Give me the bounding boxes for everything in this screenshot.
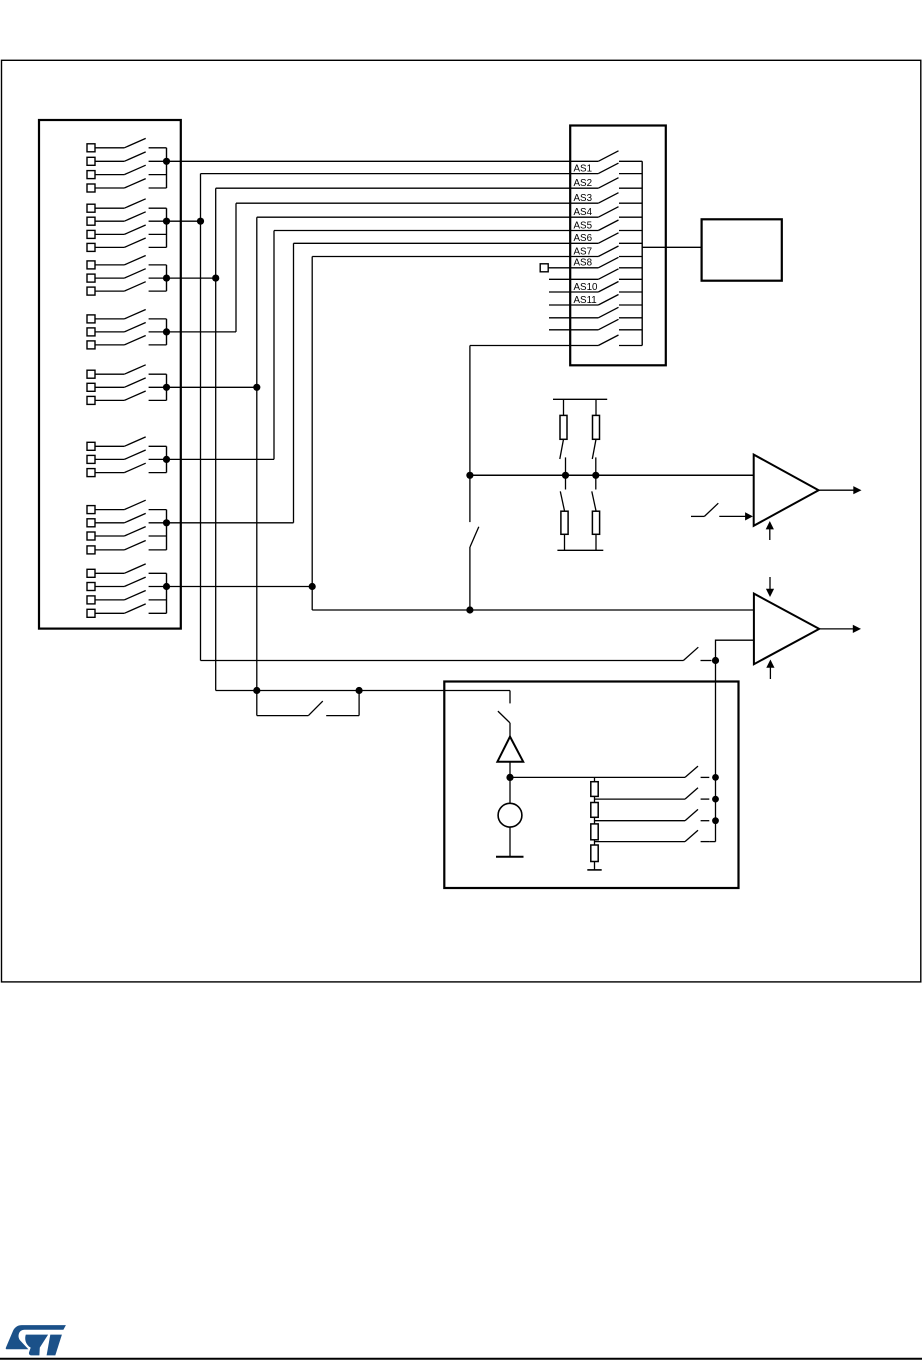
input switch matrix block — [39, 120, 181, 629]
switch G7.1 — [87, 500, 167, 513]
wire AS1 vertical — [200, 174, 202, 661]
wire G8 out — [167, 586, 313, 588]
node G1 out — [163, 158, 170, 165]
switch AS row1 — [598, 151, 642, 162]
wire stub — [549, 278, 598, 280]
wire AS row8 horizontal — [312, 256, 598, 258]
resistor RL4 — [591, 845, 598, 862]
node G7 out — [163, 519, 170, 526]
node D — [466, 606, 473, 613]
switch G3.3 — [87, 282, 167, 295]
switch G8.2 — [87, 577, 167, 590]
wire main line to op-amp U1 — [470, 474, 754, 476]
switch bypass (below line) — [257, 691, 359, 716]
node C — [592, 472, 599, 479]
wire ladder link — [594, 796, 596, 802]
switch ref tap 1 — [685, 766, 709, 777]
switch G8.1 — [87, 564, 167, 577]
switch G7.4 — [87, 541, 167, 554]
node A — [466, 472, 473, 479]
wire diode to node H — [509, 762, 511, 778]
switch AS row14 — [598, 319, 642, 330]
switch G8.3 — [87, 591, 167, 604]
wire G3 out — [167, 277, 216, 279]
resistor R bottom — [592, 511, 599, 550]
switch G3.1 — [87, 256, 167, 269]
wire AS row2 horizontal — [201, 173, 599, 175]
wire right vertical (node E down) — [715, 661, 717, 842]
group G4 bracket — [166, 319, 168, 345]
wire stub — [549, 317, 598, 319]
wire G4 out — [167, 331, 237, 333]
terminal AS8 input — [540, 264, 598, 272]
switch G1.4 — [87, 179, 167, 192]
wire tap4 contact — [709, 841, 715, 843]
switch G1.1 — [87, 138, 167, 151]
node B — [562, 472, 569, 479]
AS selector block — [570, 126, 666, 366]
node G5 out — [163, 384, 170, 391]
arrow U3 top control — [766, 577, 774, 597]
wire divider feed vertical (AS row15 to node A) — [469, 346, 471, 476]
switch AS row2 — [598, 163, 642, 174]
node G — [356, 687, 363, 694]
footer rule — [0, 1358, 922, 1360]
node G2 out — [163, 218, 170, 225]
wire U3 output — [819, 625, 861, 633]
wire op-amp U3 input (from AS7/G8) — [312, 609, 754, 611]
switch G4.3 — [87, 336, 167, 349]
switch G4.2 — [87, 323, 167, 336]
switch G6.3 — [87, 463, 167, 476]
wire AS row6 horizontal — [274, 230, 598, 232]
svg-text:AS6: AS6 — [574, 233, 593, 244]
switch (bottom branch) — [592, 475, 596, 511]
bottom rail — [557, 549, 603, 551]
node G3 out — [163, 275, 170, 282]
arrow U3 bias — [766, 660, 774, 680]
switch G1.3 — [87, 165, 167, 178]
switch G2.4 — [87, 238, 167, 251]
switch G3.2 — [87, 269, 167, 282]
resistor RL1 — [591, 782, 598, 797]
group G3 bracket — [166, 265, 168, 291]
node G8 out — [163, 583, 170, 590]
figure frame — [2, 60, 921, 982]
resistor RL2 — [591, 803, 598, 818]
ST logo — [6, 1325, 66, 1355]
switch G5.1 — [87, 365, 167, 378]
switch G7.2 — [87, 513, 167, 526]
switch AS row10 — [598, 269, 642, 280]
wire AS3 vertical — [235, 203, 237, 332]
junction node G3/AS2 — [212, 275, 219, 282]
top rail — [553, 398, 607, 400]
ground (ladder) — [587, 869, 601, 871]
group G2 bracket — [166, 208, 168, 247]
group G5 bracket — [166, 374, 168, 400]
current source I1 — [498, 777, 522, 856]
junction node G8/AS7 — [309, 583, 316, 590]
node H — [506, 774, 513, 781]
switch (top branch) — [560, 439, 566, 475]
svg-text:AS11: AS11 — [574, 295, 597, 306]
switch AS row13 — [598, 307, 642, 318]
wire node H to ladder — [510, 776, 685, 778]
diode D1 — [497, 737, 523, 762]
node tap1 — [712, 774, 719, 781]
ground (I1) — [496, 856, 524, 858]
switch U3 control — [683, 647, 711, 660]
wire tap 3 — [595, 820, 686, 822]
switch AS row3 — [598, 178, 642, 189]
wire AS row3 horizontal — [216, 187, 599, 189]
wire AS row4 horizontal — [236, 202, 598, 204]
wire AS common out — [642, 246, 701, 248]
arrow U1 bias — [766, 521, 774, 540]
svg-text:AS7: AS7 — [574, 246, 593, 257]
switch G2.1 — [87, 199, 167, 212]
switch AS row6 — [598, 220, 642, 231]
switch G4.1 — [87, 310, 167, 323]
op-amp U3 — [754, 594, 819, 665]
switch ref tap 3 — [685, 809, 709, 820]
switch (bottom branch) — [560, 475, 565, 511]
switch AS row11 — [598, 282, 642, 293]
switch G8.4 — [87, 604, 167, 617]
switch G5.3 — [87, 391, 167, 404]
switch G1.2 — [87, 152, 167, 165]
svg-text:AS3: AS3 — [574, 193, 593, 204]
svg-text:AS8: AS8 — [574, 258, 593, 269]
svg-text:AS4: AS4 — [574, 207, 593, 218]
wire AS5 vertical — [273, 231, 275, 460]
svg-text:AS1: AS1 — [574, 163, 593, 174]
switch AS row5 — [598, 207, 642, 218]
switch AS row15 — [598, 335, 642, 346]
node F — [253, 687, 260, 694]
wire AS4 vertical — [256, 217, 258, 690]
svg-text:AS2: AS2 — [574, 178, 593, 189]
wire AS row5 horizontal — [257, 216, 599, 218]
AS common bracket — [641, 161, 643, 345]
resistor RL3 — [591, 824, 598, 840]
switch G2.2 — [87, 212, 167, 225]
node G4 out — [163, 328, 170, 335]
switch ref tap 4 — [685, 830, 709, 841]
wire G1 out to AS row1 — [167, 160, 599, 162]
group G8 bracket — [166, 573, 168, 613]
switch G6.1 — [87, 437, 167, 450]
node G6 out — [163, 456, 170, 463]
svg-text:AS5: AS5 — [574, 220, 593, 231]
wire G6 out — [167, 458, 275, 460]
switch (top branch) — [592, 439, 596, 475]
switch U1 control — [691, 503, 753, 520]
wire node E to U3 — [716, 640, 754, 660]
wire tap 4 — [595, 841, 686, 843]
junction node G2/AS1 — [197, 218, 204, 225]
wire AS row7 horizontal — [294, 242, 599, 244]
switch AS row7 — [598, 233, 642, 244]
wire stub — [549, 304, 598, 306]
node tap2 — [712, 796, 719, 803]
resistor R top — [593, 399, 600, 439]
wire AS row15 to divider vertical — [470, 345, 598, 347]
switch G5.2 — [87, 378, 167, 391]
switch G2.3 — [87, 225, 167, 238]
group G6 bracket — [166, 446, 168, 472]
reference block — [444, 682, 738, 889]
group G1 bracket — [166, 148, 168, 188]
op-amp U1 — [754, 455, 819, 526]
switch AS row9 — [598, 257, 642, 268]
wire ladder link — [594, 817, 596, 824]
switch AS row12 — [598, 295, 642, 306]
switch ref feed (vertical) — [498, 691, 510, 737]
junction node G5/AS4 — [253, 384, 260, 391]
wire G7 out — [167, 522, 294, 524]
wire stub — [549, 329, 598, 331]
resistor R bottom — [561, 511, 568, 550]
switch G6.2 — [87, 450, 167, 463]
wire AS7 vertical — [311, 257, 313, 611]
node E — [712, 657, 719, 664]
switch SW-A (vertical, open) — [470, 475, 479, 610]
group G7 bracket — [166, 510, 168, 550]
control box U2 — [702, 219, 782, 280]
wire U3 control line — [201, 660, 684, 662]
resistor R top — [560, 399, 567, 439]
wire stub — [549, 291, 598, 293]
switch ref tap 2 — [685, 788, 709, 799]
switch G7.3 — [87, 527, 167, 540]
wire G5 out — [167, 386, 257, 388]
svg-text:AS10: AS10 — [574, 282, 599, 293]
wire U1 output — [819, 486, 862, 494]
wire ladder link — [594, 840, 596, 845]
wire AS6 vertical — [293, 243, 295, 523]
wire AS2 vertical — [215, 188, 217, 690]
wire ladder top stub — [594, 777, 596, 781]
switch AS row4 — [598, 193, 642, 204]
node tap3 — [712, 817, 719, 824]
wire tap 2 — [595, 798, 686, 800]
wire ladder bottom stub — [594, 862, 596, 870]
switch AS row8 — [598, 246, 642, 257]
wire G2 out — [167, 220, 201, 222]
wire AS2/G3 line into reference block — [216, 690, 510, 692]
